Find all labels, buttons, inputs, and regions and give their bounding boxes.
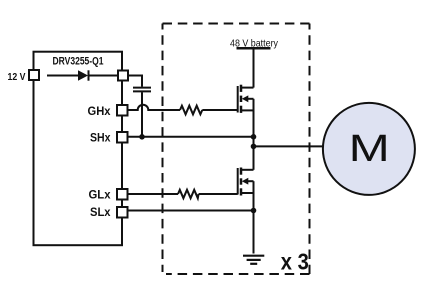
pin: driver supply (square) (118, 71, 128, 81)
wire: R2 to Q2 gate (199, 193, 238, 195)
svg-text:x 3: x 3 (281, 248, 309, 274)
resistor R2 (low-side gate) (178, 190, 199, 198)
pin SLx (117, 207, 128, 218)
motor M (323, 103, 415, 195)
wire: 12V to diode anode (47, 75, 78, 77)
svg-text:GHx: GHx (88, 104, 111, 118)
node: 48 V battery rail (230, 37, 279, 49)
transistor Q2 (low-side NMOS) (238, 168, 254, 196)
wire: diode cathode to supply pin (89, 75, 117, 77)
dashed enclosure (half-bridge, repeated x3) (163, 24, 310, 275)
node: SLx junction (251, 208, 257, 214)
resistor R1 (high-side gate) (180, 106, 202, 115)
gate driver U1 block outline (34, 52, 123, 246)
wire SLx (128, 210, 254, 212)
svg-text:SLx: SLx (90, 205, 111, 219)
ground (243, 256, 264, 264)
node: phase output junction (251, 144, 257, 150)
wire: Q2 body/source to ground (253, 181, 255, 253)
diode D1 (78, 70, 89, 80)
terminal 12V (input pin square) (29, 70, 39, 80)
node: junction of capacitor and SHx (139, 134, 145, 140)
wire: battery to Q1 drain (253, 49, 255, 88)
svg-text:12 V: 12 V (8, 72, 26, 83)
svg-text:GLx: GLx (89, 188, 111, 202)
node: SHx junction (251, 134, 257, 140)
pin GLx (117, 189, 128, 200)
pin SHx (117, 132, 128, 143)
pin GHx (117, 105, 128, 116)
wire: GLx to R2 (128, 193, 178, 195)
svg-text:M: M (349, 127, 390, 169)
wire: R1 to Q1 gate (202, 109, 237, 111)
wire SHx (128, 136, 254, 138)
transistor Q1 (high-side NMOS) (238, 85, 254, 113)
wire: Q1 body/source down to phase node (253, 99, 255, 170)
svg-text:SHx: SHx (90, 131, 111, 145)
wire: supply pin to bootstrap capacitor (129, 76, 142, 87)
svg-text:DRV3255-Q1: DRV3255-Q1 (53, 56, 104, 68)
wire: capacitor bottom to SHx net (141, 92, 143, 137)
wire: phase node to motor (254, 145, 324, 147)
capacitor C1 (bootstrap) (133, 88, 151, 92)
wire: GHx with hop over capacitor line (128, 105, 180, 110)
